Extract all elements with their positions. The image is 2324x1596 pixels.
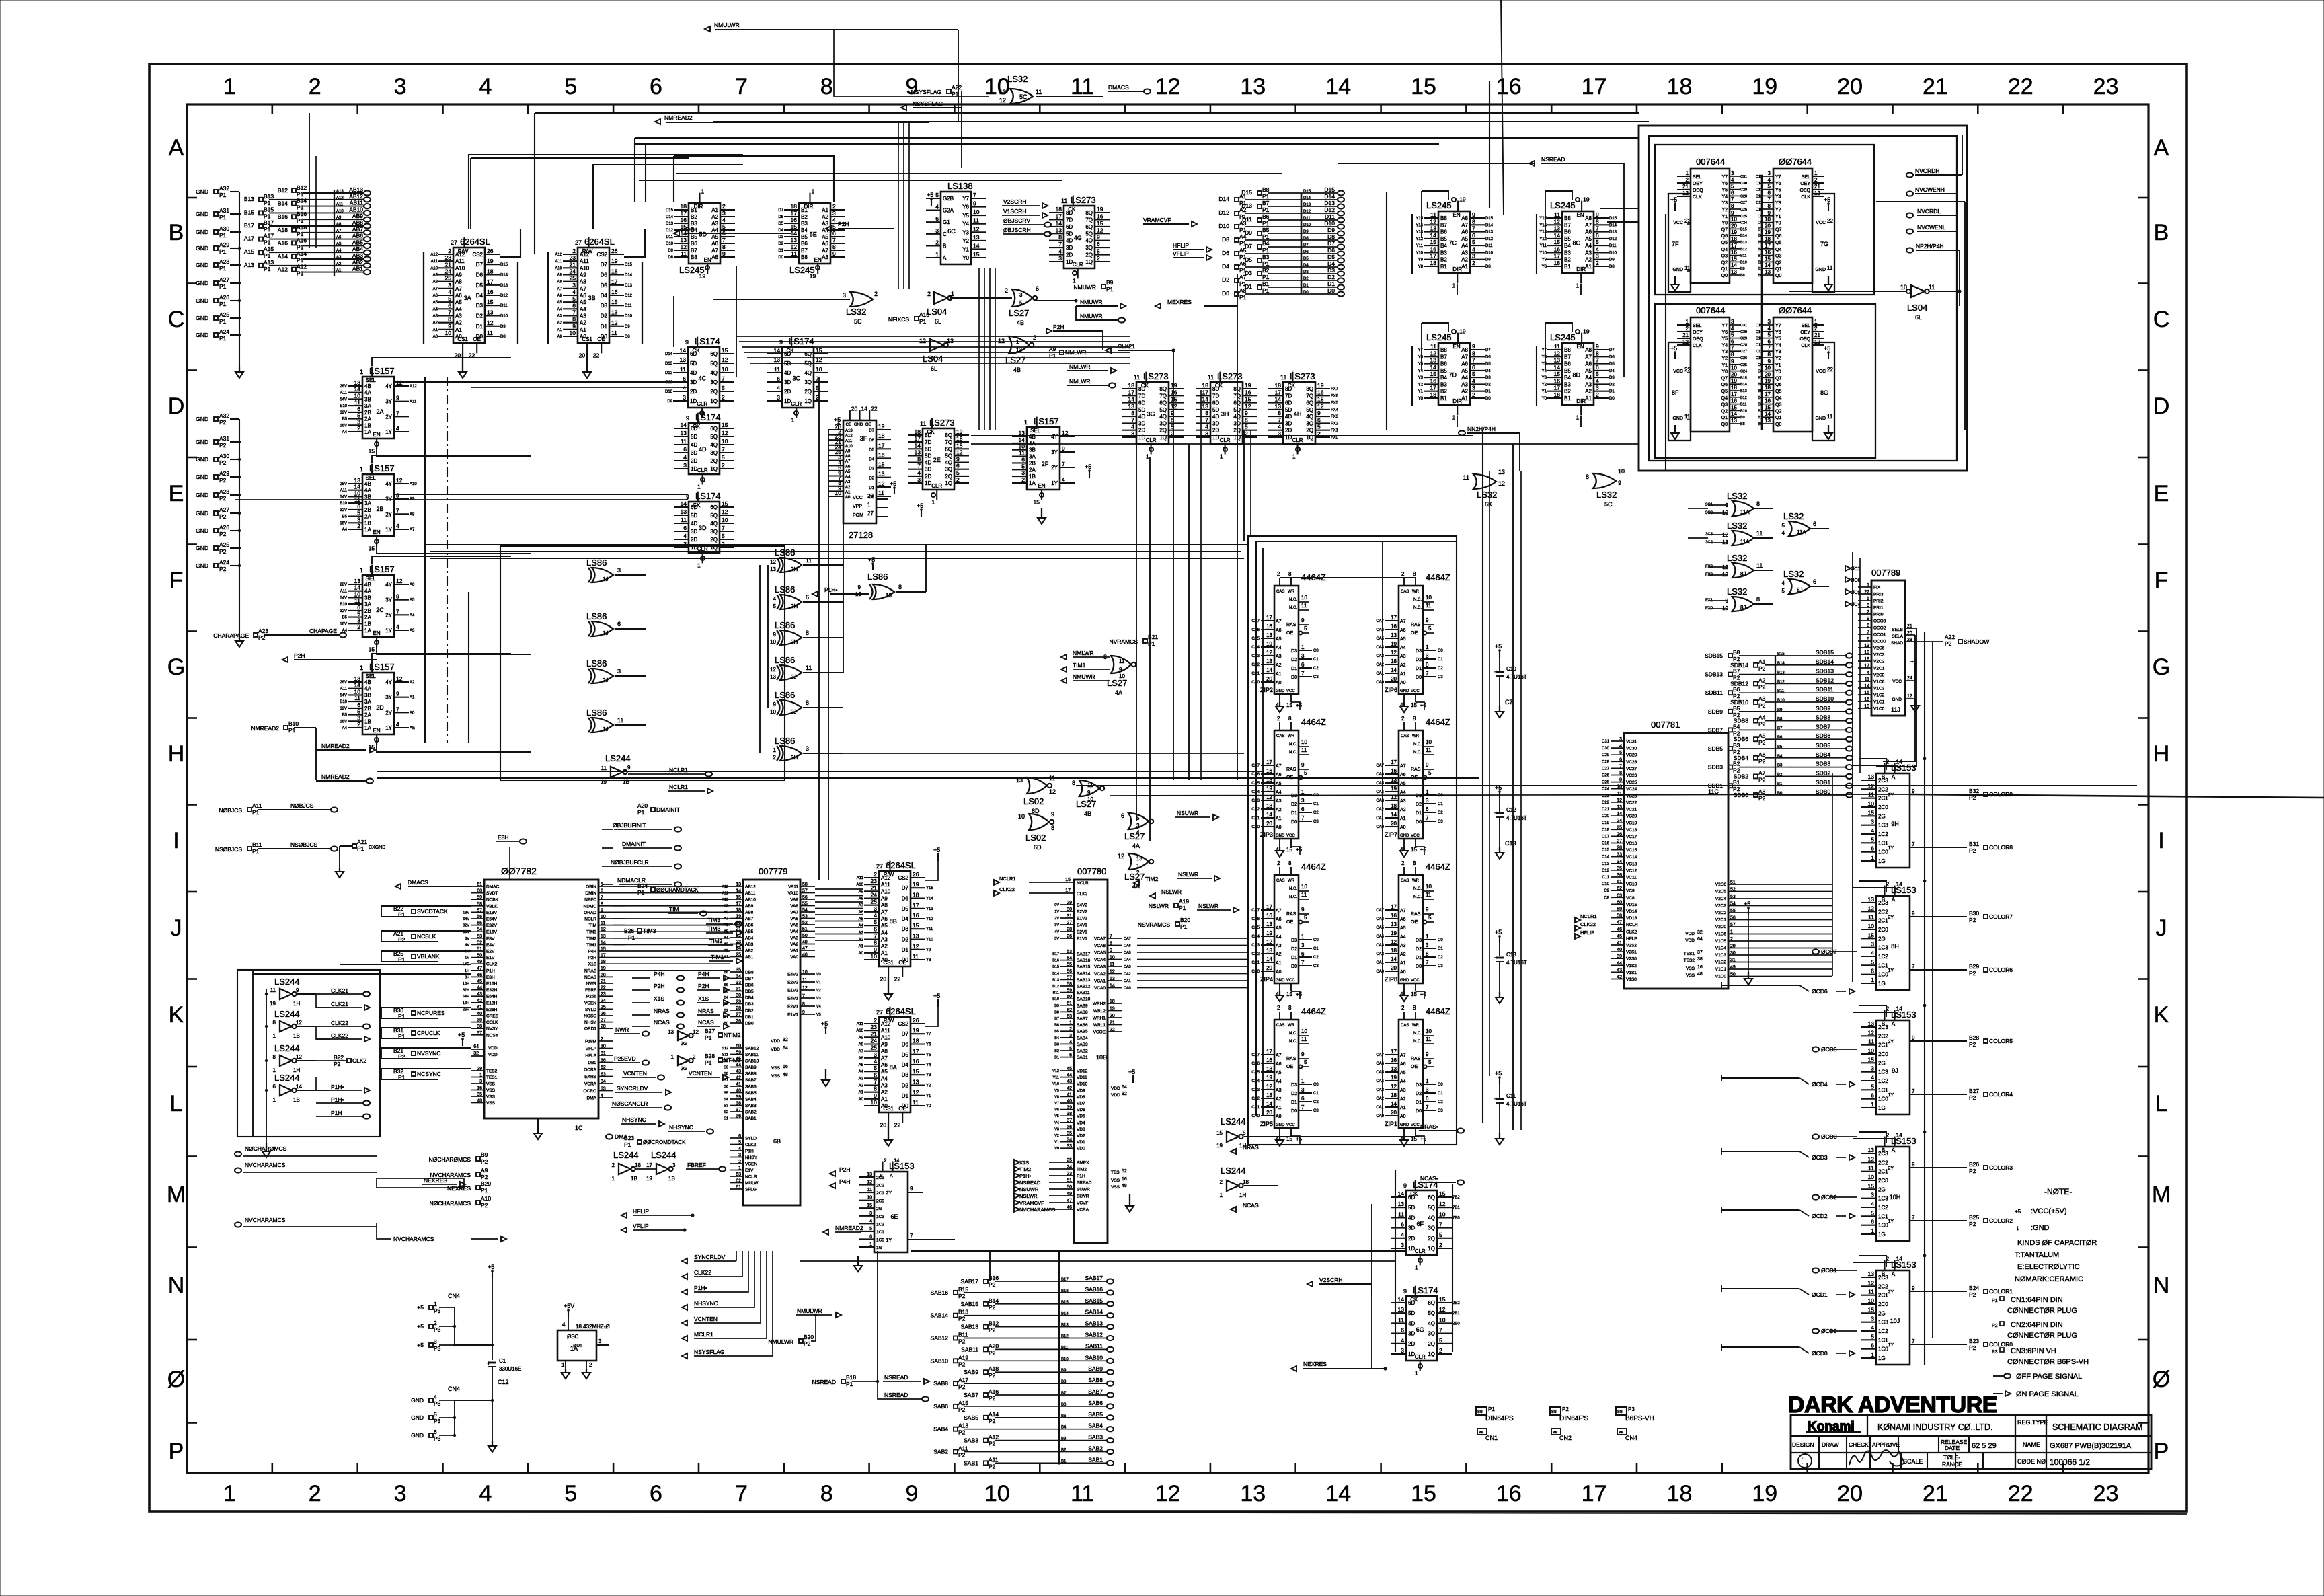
- svg-text:P3: P3: [1628, 1406, 1635, 1412]
- svg-text:9: 9: [1912, 1035, 1915, 1041]
- wire SEL loop: [372, 654, 511, 662]
- svg-text:D1: D1: [1291, 1100, 1297, 1105]
- svg-text:P2: P2: [1758, 739, 1766, 746]
- svg-text:B6: B6: [724, 983, 728, 987]
- svg-text:9: 9: [627, 765, 631, 771]
- svg-text:A: A: [890, 1174, 893, 1178]
- svg-text:RAS: RAS: [1286, 767, 1296, 772]
- svg-text:N.C.: N.C.: [1413, 743, 1422, 747]
- svg-text:15: 15: [1868, 1056, 1875, 1063]
- svg-text:10: 10: [354, 688, 361, 695]
- svg-text:A5: A5: [881, 1069, 888, 1075]
- svg-text:49: 49: [1067, 1192, 1072, 1196]
- svg-text:P3: P3: [434, 1400, 441, 1407]
- svg-text:VCC: VCC: [1411, 979, 1420, 983]
- svg-text:B15: B15: [244, 208, 254, 215]
- svg-text:7: 7: [874, 933, 877, 940]
- svg-text:A1: A1: [881, 1096, 888, 1102]
- svg-text:A5: A5: [1461, 236, 1468, 242]
- svg-text:B15: B15: [1740, 376, 1747, 380]
- svg-text:B17: B17: [264, 219, 274, 226]
- svg-text:13: 13: [1266, 1066, 1272, 1072]
- svg-text:A5: A5: [711, 234, 718, 240]
- signal NEXRES bottom: [1291, 1366, 1296, 1371]
- svg-text:2C0: 2C0: [1878, 1178, 1888, 1184]
- svg-text:1B: 1B: [631, 1176, 637, 1182]
- svg-text:4.7U16T: 4.7U16T: [1506, 960, 1527, 966]
- svg-text:E4V: E4V: [486, 943, 495, 948]
- svg-text:VCRA: VCRA: [1077, 1208, 1089, 1213]
- svg-text:Y1: Y1: [926, 1094, 931, 1098]
- svg-text:VC27: VC27: [1626, 767, 1637, 771]
- svg-text:9: 9: [1596, 343, 1599, 350]
- svg-text:21: 21: [1682, 184, 1689, 190]
- svg-text:P2: P2: [989, 1327, 996, 1334]
- svg-text:10: 10: [1765, 217, 1771, 223]
- svg-text:VC23: VC23: [1626, 794, 1637, 798]
- svg-text:10: 10: [770, 709, 776, 715]
- svg-text:C12: C12: [498, 1379, 509, 1385]
- svg-text:11: 11: [1061, 198, 1067, 204]
- svg-text:5: 5: [448, 295, 451, 302]
- svg-text:16: 16: [1391, 768, 1397, 774]
- wire DIR stub: [1580, 284, 1582, 295]
- svg-text:B1: B1: [1733, 779, 1740, 786]
- svg-text:CXGND: CXGND: [369, 845, 385, 850]
- svg-text:A6: A6: [1400, 773, 1406, 777]
- svg-text:54: 54: [802, 908, 808, 913]
- svg-text:24: 24: [871, 892, 878, 899]
- svg-text:4: 4: [1768, 326, 1771, 332]
- svg-text:P1H•: P1H•: [824, 586, 838, 593]
- svg-text:8: 8: [1756, 500, 1760, 507]
- svg-text:20: 20: [1110, 1014, 1115, 1018]
- svg-text:GND: GND: [854, 423, 863, 427]
- svg-text:9: 9: [906, 1481, 919, 1507]
- wire 27128 bus left: [818, 377, 820, 880]
- svg-text:A6: A6: [1276, 773, 1282, 777]
- svg-text:12: 12: [487, 319, 494, 326]
- svg-text:5Q: 5Q: [1428, 1205, 1435, 1211]
- svg-text:14: 14: [1202, 396, 1209, 403]
- svg-text:36: 36: [1617, 873, 1622, 878]
- svg-text:25: 25: [871, 899, 878, 905]
- svg-text:16: 16: [878, 451, 885, 458]
- svg-text:3V: 3V: [1054, 923, 1059, 927]
- svg-text:B13: B13: [958, 1309, 968, 1316]
- svg-text:V1C6: V1C6: [1715, 932, 1727, 937]
- svg-text:1C3: 1C3: [1878, 945, 1888, 951]
- svg-text:19: 19: [1391, 641, 1397, 647]
- svg-text:OEY: OEY: [1800, 330, 1810, 335]
- svg-text:A18: A18: [297, 224, 307, 231]
- svg-text:A1: A1: [711, 207, 718, 213]
- svg-text:18: 18: [601, 960, 606, 964]
- svg-text:V2: V2: [816, 989, 821, 993]
- svg-text:16: 16: [1097, 213, 1103, 219]
- svg-text:14: 14: [1896, 1256, 1903, 1262]
- svg-text:+5: +5: [1420, 991, 1427, 997]
- svg-text:A3: A3: [1461, 250, 1468, 256]
- svg-text:D2: D2: [869, 477, 874, 481]
- svg-text:V5: V5: [1054, 1114, 1059, 1118]
- svg-text:A4: A4: [845, 476, 851, 480]
- svg-text:15: 15: [722, 422, 728, 428]
- svg-text:GND: GND: [196, 245, 208, 252]
- svg-text:26: 26: [913, 1017, 919, 1024]
- svg-text:5: 5: [773, 603, 777, 609]
- svg-text:2J: 2J: [603, 677, 608, 683]
- svg-text:B14: B14: [1052, 972, 1059, 976]
- svg-text:E4V1: E4V1: [1077, 923, 1087, 928]
- svg-text:D5: D5: [902, 1052, 909, 1058]
- svg-text:2A: 2A: [364, 416, 371, 422]
- wire trunk x1710: [1149, 457, 1151, 841]
- svg-text:12: 12: [973, 225, 980, 232]
- svg-text:X1S: X1S: [1019, 1160, 1029, 1166]
- svg-text:46: 46: [1617, 927, 1622, 932]
- svg-text:8: 8: [1072, 780, 1075, 786]
- svg-text:1C3: 1C3: [1878, 1320, 1888, 1326]
- svg-text:VD1: VD1: [1077, 1140, 1085, 1145]
- svg-text:L: L: [170, 1091, 183, 1116]
- svg-text:6: 6: [1301, 1096, 1305, 1102]
- svg-text:P1H: P1H: [745, 1149, 754, 1154]
- svg-text:SEL: SEL: [1802, 324, 1810, 328]
- svg-text:3Q: 3Q: [1306, 420, 1313, 426]
- svg-text:B14: B14: [1740, 234, 1747, 238]
- svg-text:14: 14: [973, 242, 980, 249]
- svg-text:3: 3: [738, 1153, 741, 1158]
- svg-text:SAB1: SAB1: [964, 1459, 978, 1466]
- svg-text:A13: A13: [244, 262, 254, 268]
- svg-text:+5V: +5V: [564, 1303, 574, 1309]
- svg-text:19: 19: [1459, 196, 1466, 203]
- svg-text:A1: A1: [1461, 264, 1468, 270]
- svg-text:A26: A26: [219, 294, 229, 301]
- svg-text:OCRA: OCRA: [584, 1068, 596, 1073]
- svg-text:64: 64: [783, 1046, 788, 1051]
- svg-text:7: 7: [1426, 1104, 1429, 1110]
- svg-text:B: B: [1882, 1271, 1885, 1277]
- svg-text:P1: P1: [1262, 260, 1270, 267]
- svg-text:27: 27: [736, 1013, 741, 1018]
- svg-text:P2: P2: [804, 1340, 811, 1347]
- svg-text:7: 7: [601, 895, 603, 900]
- svg-text:1Q: 1Q: [1428, 1351, 1435, 1357]
- svg-text:A: A: [1892, 774, 1896, 780]
- svg-text:NHSYNC: NHSYNC: [694, 1300, 718, 1307]
- svg-text:B2: B2: [1440, 389, 1447, 395]
- svg-text:VD13: VD13: [1626, 916, 1637, 921]
- gate LS27 4A upper: [1111, 656, 1131, 673]
- svg-text:P2: P2: [1758, 702, 1766, 709]
- svg-text:D15: D15: [1609, 217, 1617, 221]
- svg-text:VA1: VA1: [790, 949, 798, 954]
- svg-text:6: 6: [1426, 806, 1429, 812]
- svg-text:SAB10: SAB10: [931, 1357, 949, 1364]
- svg-text:P1: P1: [1262, 247, 1270, 254]
- wire rails to 1C: [340, 964, 471, 965]
- svg-text:TES2: TES2: [486, 1069, 498, 1074]
- svg-text:Y3: Y3: [1721, 201, 1728, 206]
- svg-text:2D: 2D: [1408, 1341, 1415, 1347]
- svg-text:NWR: NWR: [586, 982, 596, 987]
- svg-text:NVCHARAMCS: NVCHARAMCS: [245, 1217, 286, 1223]
- svg-text:N.C.: N.C.: [1289, 895, 1297, 899]
- svg-text:B5: B5: [342, 616, 348, 620]
- svg-text:1: 1: [1814, 319, 1818, 325]
- svg-text:VC15: VC15: [1626, 848, 1637, 853]
- svg-text:GND: GND: [1400, 1123, 1409, 1127]
- svg-text:17: 17: [1582, 1481, 1607, 1507]
- svg-text:AB9: AB9: [745, 904, 754, 909]
- svg-text:CCLK: CCLK: [486, 1020, 498, 1025]
- svg-text:A6: A6: [1400, 628, 1406, 633]
- svg-text:COLOR3: COLOR3: [1989, 1164, 2013, 1171]
- svg-text:D2: D2: [1416, 802, 1422, 807]
- svg-text:A10: A10: [410, 482, 417, 486]
- svg-text:11: 11: [774, 366, 780, 373]
- svg-text:COLOR7: COLOR7: [1989, 913, 2013, 920]
- signal ØCD0 row: [1721, 1344, 1722, 1351]
- wire NSREAD vertical: [877, 1251, 878, 1381]
- svg-text:15: 15: [1868, 1306, 1875, 1313]
- svg-text:2Q: 2Q: [1159, 428, 1167, 434]
- svg-text:B5: B5: [1054, 1030, 1059, 1034]
- svg-text:Q6: Q6: [1775, 383, 1781, 387]
- svg-text:A31: A31: [219, 207, 229, 214]
- svg-text:A2: A2: [1239, 206, 1247, 213]
- svg-text:2C0: 2C0: [1878, 804, 1888, 810]
- svg-text:D2: D2: [1416, 1092, 1422, 1096]
- svg-text:C0: C0: [1313, 938, 1319, 942]
- svg-text:E8V: E8V: [486, 936, 495, 941]
- svg-text:ØØ7782: ØØ7782: [501, 866, 537, 876]
- svg-text:3: 3: [1596, 385, 1599, 391]
- mux LS153 10H: [1876, 1147, 1910, 1241]
- svg-text:SDB7: SDB7: [1708, 726, 1723, 733]
- svg-text:D13: D13: [1609, 231, 1617, 235]
- svg-text:10: 10: [1426, 884, 1432, 890]
- svg-text:V2C6: V2C6: [1873, 646, 1885, 651]
- svg-text:18: 18: [1266, 948, 1272, 954]
- svg-text:SAB10: SAB10: [1085, 1354, 1103, 1361]
- svg-text:10: 10: [722, 517, 728, 523]
- svg-text:52: 52: [1730, 888, 1736, 892]
- svg-text:B2: B2: [1733, 761, 1740, 767]
- svg-text:10: 10: [770, 639, 776, 645]
- svg-text:17: 17: [1275, 389, 1282, 395]
- svg-text:Y1: Y1: [1721, 363, 1728, 368]
- svg-text:P1: P1: [952, 91, 959, 98]
- svg-text:18: 18: [1243, 1179, 1249, 1185]
- svg-text:24: 24: [871, 1038, 878, 1044]
- svg-text:P2: P2: [1969, 1041, 1976, 1048]
- svg-text:DIN64PS: DIN64PS: [1485, 1415, 1514, 1422]
- svg-text:D2: D2: [1291, 947, 1297, 952]
- svg-text:DMAINIT: DMAINIT: [622, 841, 646, 847]
- svg-text:B8: B8: [1733, 649, 1740, 656]
- svg-text:1: 1: [1426, 789, 1429, 795]
- svg-text:14: 14: [1896, 1005, 1903, 1012]
- signal DMA out: [606, 1134, 613, 1139]
- svg-text:C: C: [2153, 307, 2170, 332]
- svg-text:14: 14: [354, 584, 361, 591]
- svg-text:P2: P2: [1758, 665, 1766, 672]
- signal TIM2 into 10B: [1014, 1166, 1019, 1172]
- svg-text:LS273: LS273: [929, 418, 955, 428]
- svg-text:14: 14: [1275, 396, 1282, 403]
- svg-text:C1: C1: [1438, 947, 1443, 951]
- svg-text:7: 7: [735, 74, 748, 100]
- svg-text:36: 36: [601, 1059, 606, 1063]
- svg-text:48: 48: [477, 1099, 482, 1104]
- svg-text:6: 6: [1731, 338, 1734, 344]
- svg-text:DB3: DB3: [745, 1002, 754, 1007]
- svg-text:B16: B16: [297, 211, 307, 217]
- svg-text:14: 14: [1896, 881, 1903, 888]
- svg-text:6: 6: [1301, 806, 1305, 812]
- svg-text:2A: 2A: [364, 615, 371, 621]
- svg-text:CLR: CLR: [931, 483, 942, 489]
- svg-text:Y6: Y6: [1418, 355, 1424, 359]
- wire mux output trunk solid: [424, 377, 426, 743]
- svg-text:15: 15: [1439, 1190, 1446, 1197]
- svg-text:3: 3: [874, 1051, 877, 1058]
- svg-text:22: 22: [736, 934, 741, 938]
- svg-text:NSYSFLAG: NSYSFLAG: [911, 89, 941, 96]
- svg-text:A3: A3: [1758, 695, 1766, 702]
- svg-text:Q1: Q1: [1775, 416, 1781, 420]
- svg-text:7Q: 7Q: [1306, 393, 1313, 399]
- svg-text:32: 32: [473, 1051, 479, 1056]
- svg-text:13: 13: [1391, 1066, 1397, 1072]
- svg-text:19: 19: [1110, 1007, 1115, 1012]
- svg-text:C3: C3: [1313, 1109, 1319, 1113]
- svg-text:2: 2: [434, 1320, 437, 1326]
- wire trunk x1768: [1188, 444, 1190, 780]
- svg-text:RAS: RAS: [1411, 1057, 1421, 1061]
- svg-text:VD5: VD5: [1077, 1114, 1085, 1119]
- svg-text:A0: A0: [1400, 1114, 1406, 1119]
- svg-text:A4: A4: [1585, 375, 1592, 381]
- svg-text:V4: V4: [816, 1005, 821, 1009]
- svg-text:VSS: VSS: [486, 1095, 496, 1100]
- svg-text:4: 4: [1069, 1040, 1072, 1044]
- signal HFLIP into 11C: [1575, 934, 1580, 939]
- svg-text:5: 5: [1428, 1059, 1432, 1065]
- svg-text:4B: 4B: [364, 383, 371, 389]
- svg-text:7: 7: [396, 706, 399, 712]
- svg-text:RAS: RAS: [1411, 912, 1421, 917]
- wire routing box G region: [500, 546, 785, 780]
- svg-text:D4: D4: [1609, 369, 1615, 373]
- svg-text:C25: C25: [1740, 363, 1747, 367]
- svg-text:13: 13: [1765, 269, 1771, 275]
- svg-text:2C2: 2C2: [1878, 786, 1888, 792]
- svg-text:WR: WR: [1288, 734, 1295, 738]
- svg-text:1: 1: [1301, 644, 1305, 650]
- svg-text:A5: A5: [580, 299, 586, 305]
- svg-text:51: 51: [477, 947, 482, 952]
- svg-text:Q5: Q5: [1775, 389, 1781, 394]
- svg-text:CK: CK: [1068, 206, 1076, 213]
- svg-text:C1: C1: [1438, 1092, 1443, 1096]
- svg-text:A2: A2: [1400, 663, 1406, 668]
- svg-text:A3: A3: [1276, 944, 1282, 948]
- svg-text:E:ELECTRØLYTIC: E:ELECTRØLYTIC: [2017, 1263, 2080, 1271]
- svg-text:D9: D9: [500, 325, 506, 329]
- svg-text:SDB3: SDB3: [1708, 764, 1723, 771]
- wire SEL loop: [372, 556, 511, 564]
- svg-text:7: 7: [1596, 357, 1599, 364]
- register LS273 4H: [1283, 382, 1315, 444]
- custom 007789 11J: [1871, 580, 1905, 716]
- svg-text:LS174: LS174: [789, 336, 814, 346]
- svg-text:M: M: [2152, 1182, 2171, 1207]
- svg-text:3Q: 3Q: [710, 529, 718, 535]
- svg-text:18: 18: [1765, 385, 1771, 391]
- svg-text:12: 12: [1868, 905, 1875, 911]
- svg-text:SEL: SEL: [1030, 428, 1041, 434]
- svg-text:20: 20: [880, 975, 887, 982]
- svg-text:NØBJBUFCLR: NØBJBUFCLR: [611, 859, 649, 866]
- signal NVSYNC B21: [381, 1048, 438, 1059]
- svg-text:SAB7: SAB7: [745, 1078, 757, 1083]
- svg-text:RANCE: RANCE: [1942, 1461, 1962, 1468]
- svg-text:4: 4: [396, 425, 399, 432]
- svg-text:Ø: Ø: [2153, 1367, 2170, 1392]
- svg-text:P1: P1: [1179, 905, 1186, 911]
- svg-text:P2: P2: [481, 1158, 488, 1165]
- svg-text:64V: 64V: [463, 917, 469, 921]
- svg-text:2B: 2B: [364, 410, 371, 416]
- svg-text:12: 12: [1554, 350, 1561, 356]
- svg-text:3: 3: [1301, 942, 1305, 948]
- svg-text:1Q: 1Q: [1428, 1246, 1435, 1252]
- svg-text:1: 1: [1220, 453, 1223, 459]
- svg-text:50: 50: [1067, 1185, 1072, 1190]
- svg-text:45: 45: [1067, 1067, 1072, 1071]
- svg-text:1Y: 1Y: [1888, 1343, 1894, 1348]
- svg-text:10: 10: [1110, 956, 1115, 960]
- svg-text:Q4: Q4: [1721, 248, 1728, 252]
- svg-text:D5: D5: [476, 282, 483, 289]
- svg-text:NSREAD: NSREAD: [812, 1379, 836, 1385]
- svg-text:12: 12: [1317, 403, 1324, 410]
- svg-text:007780: 007780: [1077, 866, 1106, 876]
- svg-text:D0: D0: [1416, 820, 1422, 825]
- svg-text:GND: GND: [196, 315, 208, 321]
- svg-text:7Q: 7Q: [1159, 393, 1167, 399]
- svg-text:B11: B11: [1740, 403, 1746, 407]
- svg-text:8: 8: [1413, 571, 1416, 577]
- svg-text:NØSCANCLR: NØSCANCLR: [612, 1100, 648, 1107]
- svg-text:A: A: [1892, 1147, 1896, 1153]
- svg-text:3: 3: [1472, 253, 1475, 260]
- svg-text:ØCD4: ØCD4: [1812, 1081, 1828, 1088]
- svg-text:VSS: VSS: [486, 1088, 496, 1093]
- svg-text:AB12: AB12: [745, 885, 756, 890]
- svg-text:21: 21: [445, 261, 452, 268]
- svg-text:Y0: Y0: [962, 255, 969, 261]
- svg-text:NVCRDL: NVCRDL: [1917, 208, 1941, 215]
- svg-text:C2: C2: [1438, 956, 1443, 960]
- svg-text:VCA2: VCA2: [1094, 972, 1106, 977]
- wire NMREAD2 branch: [315, 728, 317, 780]
- svg-text:A11: A11: [431, 260, 438, 264]
